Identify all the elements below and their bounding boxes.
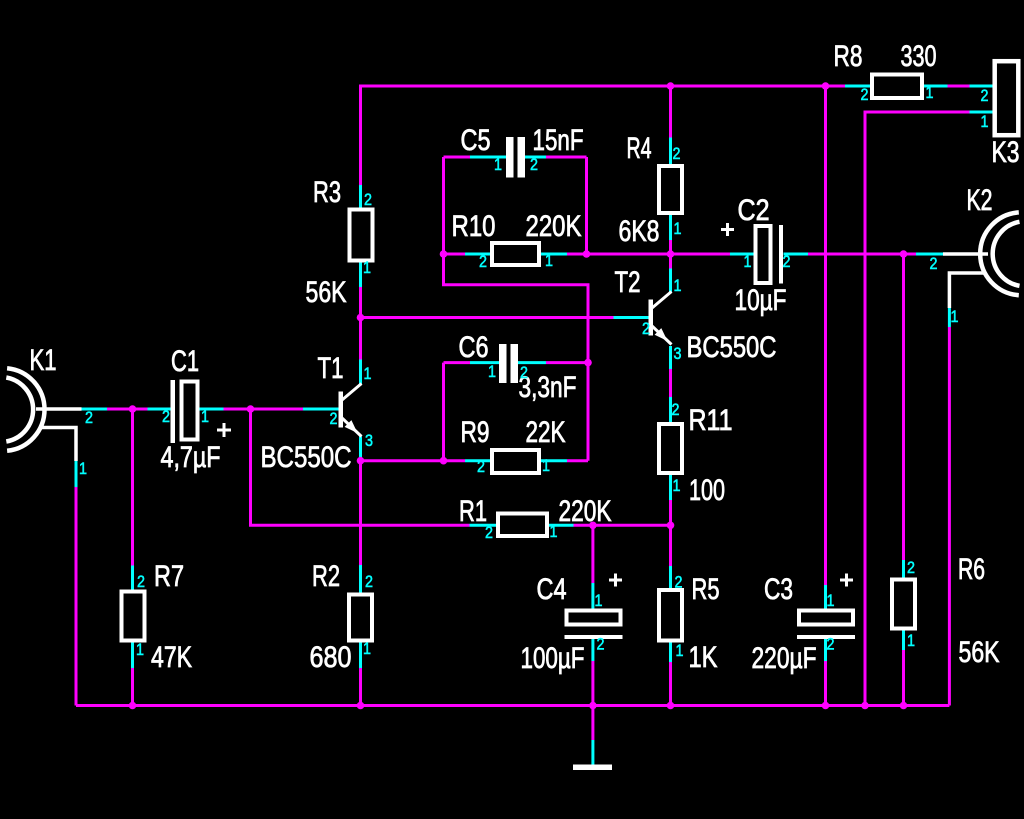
pin C4.2 stub xyxy=(591,639,594,661)
pin R9.2 stub xyxy=(465,459,490,462)
svg-text:BC550C: BC550C xyxy=(687,331,777,364)
pin C6.2 stub xyxy=(518,361,546,364)
wire R11 pin1 to output node xyxy=(669,500,672,525)
resistor R4 body xyxy=(659,166,682,213)
pin T2 emitter stub xyxy=(669,346,672,369)
resistor R2 body xyxy=(349,595,372,641)
svg-text:3: 3 xyxy=(365,431,373,450)
wire R6 pin1 to ground rail xyxy=(902,650,905,706)
wire T2 emitter to R11 pin2 xyxy=(669,369,672,397)
junction rail R2 xyxy=(357,702,365,710)
wire R9 pin1 to right loop corner xyxy=(567,459,588,462)
svg-text:C5: C5 xyxy=(461,124,491,157)
svg-text:R3: R3 xyxy=(313,176,341,209)
svg-text:6K8: 6K8 xyxy=(619,215,660,248)
resistor R1 body xyxy=(498,514,547,537)
svg-text:R2: R2 xyxy=(312,560,340,593)
svg-text:47K: 47K xyxy=(151,641,192,674)
svg-text:1: 1 xyxy=(364,364,372,383)
pin R2.1 stub xyxy=(359,643,362,669)
svg-text:1: 1 xyxy=(79,459,87,478)
svg-text:2: 2 xyxy=(930,254,938,273)
pin C3.1 stub xyxy=(824,585,827,609)
wire C6 pin1 vertical to R9 row xyxy=(442,363,445,461)
svg-text:2: 2 xyxy=(479,252,487,271)
svg-text:2: 2 xyxy=(827,635,835,654)
wire top supply rail xyxy=(361,86,846,185)
capacitor C4 plate pin1 (+) xyxy=(567,611,621,625)
svg-text:R11: R11 xyxy=(689,404,733,437)
pin K2.2 stub xyxy=(916,253,943,256)
svg-text:R4: R4 xyxy=(627,132,652,165)
pin C5.2 stub xyxy=(525,156,546,159)
pin R6.1 stub xyxy=(902,631,905,651)
wire K2 pin1 to ground rail xyxy=(948,327,951,706)
svg-text:C4: C4 xyxy=(537,573,567,606)
pin R4.1 stub xyxy=(669,215,672,240)
svg-text:1: 1 xyxy=(673,476,681,495)
pin T1 collector stub xyxy=(359,360,362,385)
svg-text:R9: R9 xyxy=(461,416,490,449)
svg-text:1: 1 xyxy=(542,456,550,475)
svg-text:2: 2 xyxy=(85,408,93,427)
junction C5.1/R10.2 node xyxy=(440,250,448,258)
junction T1 emitter node xyxy=(357,457,365,465)
capacitor C5 plate 1 xyxy=(506,137,514,178)
svg-text:56K: 56K xyxy=(959,636,1000,669)
connector K2 pin1 lead xyxy=(949,273,984,308)
pin C2.1 stub xyxy=(730,253,755,256)
pin R7.2 stub xyxy=(131,566,134,590)
svg-text:R10: R10 xyxy=(452,210,496,243)
capacitor C1 plus sign xyxy=(217,429,231,432)
wire output drop to R6 pin2 xyxy=(902,254,905,560)
pin R11.1 stub xyxy=(669,475,672,500)
junction rail R7 xyxy=(129,702,137,710)
pin T2 collector stub xyxy=(669,269,672,293)
svg-text:2: 2 xyxy=(485,523,493,542)
wire C4 bottom to ground rail xyxy=(591,661,594,706)
svg-text:2: 2 xyxy=(981,86,989,105)
svg-text:R6: R6 xyxy=(958,553,985,586)
svg-text:1K: 1K xyxy=(689,641,718,674)
svg-text:R8: R8 xyxy=(834,40,863,73)
pin C1.1 stub xyxy=(200,408,224,411)
capacitor C2 plus sign vertical xyxy=(726,223,729,236)
svg-text:15nF: 15nF xyxy=(533,124,584,157)
wire C5 top right xyxy=(546,156,587,159)
resistor R5 body xyxy=(659,590,682,641)
junction C6 left on R9 row xyxy=(440,457,448,465)
svg-text:2: 2 xyxy=(642,319,650,338)
wire R4 pin2 drop from rail xyxy=(669,86,672,138)
svg-text:BC550C: BC550C xyxy=(261,441,352,474)
junction R1/R5/R11 node xyxy=(667,522,675,530)
svg-text:1: 1 xyxy=(951,307,959,326)
svg-text:56K: 56K xyxy=(306,276,347,309)
transistor T2 collector lead xyxy=(652,292,672,309)
capacitor C3 plus sign vertical xyxy=(845,574,848,587)
svg-text:330: 330 xyxy=(901,40,937,73)
wire R5 pin1 to ground rail xyxy=(669,662,672,706)
svg-text:100: 100 xyxy=(689,474,725,507)
connector K1 inner arc xyxy=(6,378,33,442)
transistor T2 emitter lead xyxy=(652,326,672,345)
svg-text:1: 1 xyxy=(907,631,915,650)
wire C6 top right xyxy=(546,361,588,364)
svg-text:2: 2 xyxy=(597,635,605,654)
resistor R6 body xyxy=(892,580,915,629)
capacitor C1 plate pin1 (+) xyxy=(182,382,198,440)
wire T1 emitter down to R2 xyxy=(359,457,362,565)
svg-text:C1: C1 xyxy=(171,345,199,378)
capacitor C2 plus sign xyxy=(721,228,734,231)
transistor T2 base bar xyxy=(649,300,654,336)
wire output node to R5 pin2 xyxy=(669,525,672,566)
junction C3 at top rail xyxy=(822,82,830,90)
svg-text:R5: R5 xyxy=(692,573,720,606)
pin R8.1 stub xyxy=(924,85,948,88)
capacitor C2 plate pin1 (+) xyxy=(756,226,771,283)
svg-text:1: 1 xyxy=(363,639,371,658)
svg-text:1: 1 xyxy=(674,219,682,238)
capacitor C6 plate 2 xyxy=(511,344,519,383)
capacitor C3 plate pin2 xyxy=(797,635,855,639)
svg-text:1: 1 xyxy=(674,276,682,295)
svg-text:1: 1 xyxy=(981,112,989,131)
pin R4.2 stub xyxy=(669,138,672,165)
pin R1.2 stub xyxy=(470,524,497,527)
pin K1.1 stub xyxy=(75,461,78,487)
svg-text:2: 2 xyxy=(783,252,791,271)
junction C5.2/R10.1 node xyxy=(583,250,591,258)
pin T1 emitter stub xyxy=(359,437,362,458)
svg-text:K2: K2 xyxy=(967,184,993,217)
resistor R11 body xyxy=(659,424,682,473)
svg-text:680: 680 xyxy=(310,641,352,674)
svg-text:R1: R1 xyxy=(459,495,487,528)
connector K2 pin2 lead xyxy=(943,252,988,256)
svg-text:2: 2 xyxy=(672,400,680,419)
pin R6.2 stub xyxy=(902,560,905,578)
svg-text:1: 1 xyxy=(488,362,496,381)
transistor T1 emitter arrow xyxy=(345,420,358,433)
junction rail C3 xyxy=(822,702,830,710)
capacitor C4 plate pin2 xyxy=(565,635,623,639)
resistor R3 body xyxy=(350,210,373,261)
pin C5.1 stub xyxy=(470,156,506,159)
wire R4 pin1 to mid net xyxy=(669,240,672,254)
capacitor C5 plate 2 xyxy=(518,137,526,178)
wire bottom ground rail xyxy=(76,704,949,707)
svg-text:K1: K1 xyxy=(30,344,57,377)
resistor R10 body xyxy=(492,243,539,265)
pin K3.1 stub xyxy=(970,111,993,114)
wire net between R8 pin1 and K3 pin2 xyxy=(948,85,970,88)
wire K1 pin1 down to ground rail xyxy=(75,487,78,706)
wire T1 collector to T2 base xyxy=(361,316,614,319)
svg-text:2: 2 xyxy=(137,572,145,591)
svg-text:2: 2 xyxy=(520,363,528,382)
svg-text:1: 1 xyxy=(744,252,752,271)
svg-text:2: 2 xyxy=(675,573,683,592)
transistor T1 base bar xyxy=(339,392,344,428)
junction rail K3.1 xyxy=(861,702,869,710)
wire R1 feedback from T1 base node xyxy=(251,409,470,525)
resistor R9 body xyxy=(492,450,539,473)
junction rail R6 xyxy=(900,702,908,710)
pin R1.1 stub xyxy=(549,524,574,527)
junction T1 collector to T2 base xyxy=(357,314,365,322)
capacitor C1 plus sign vertical xyxy=(223,423,226,437)
svg-text:2: 2 xyxy=(162,407,170,426)
svg-text:22K: 22K xyxy=(526,416,566,449)
svg-text:1: 1 xyxy=(926,83,934,102)
pin K2.1 stub xyxy=(948,308,951,327)
wire R1 pin1 to output node xyxy=(574,524,672,527)
pin R5.2 stub xyxy=(669,566,672,588)
pin R8.2 stub xyxy=(845,85,870,88)
wire C5 top left xyxy=(444,156,471,159)
resistor R8 body xyxy=(872,75,922,99)
wire mid net R10.1 to C2.1 xyxy=(567,253,730,256)
svg-text:K3: K3 xyxy=(992,136,1020,169)
svg-text:1: 1 xyxy=(494,155,502,174)
capacitor C1 plate pin2 xyxy=(171,380,176,443)
svg-text:2: 2 xyxy=(907,558,915,577)
pin R11.2 stub xyxy=(669,397,672,422)
wire input node K1.2 to C1.2 xyxy=(107,408,148,411)
svg-text:2: 2 xyxy=(364,190,372,209)
wire ground stub below rail xyxy=(591,706,594,741)
connector K1 outer arc xyxy=(7,368,44,451)
wire R7 top drop from input node xyxy=(131,409,134,566)
svg-text:T2: T2 xyxy=(615,266,641,299)
wire K3 pin1 to ground rail xyxy=(865,112,970,706)
junction rail ground xyxy=(589,702,597,710)
wire C1 pin1 to T1 base xyxy=(224,408,304,411)
wire R7 bottom to ground rail xyxy=(131,668,134,706)
pin K3.2 stub xyxy=(970,85,993,88)
pin R9.1 stub xyxy=(541,459,567,462)
svg-text:C2: C2 xyxy=(738,194,770,227)
wire C6 top left xyxy=(444,361,471,364)
transistor T1 collector lead xyxy=(342,384,362,401)
pin R10.1 stub xyxy=(541,253,567,256)
svg-text:3: 3 xyxy=(674,344,682,363)
pin C1.2 stub xyxy=(148,408,172,411)
connector K1 pin2 lead xyxy=(36,407,82,411)
junction rail R5 xyxy=(667,702,675,710)
wire R3 pin1 to T1 collector xyxy=(359,287,362,360)
pin R10.2 stub xyxy=(465,253,490,256)
svg-text:1: 1 xyxy=(595,591,603,610)
transistor T2 emitter arrow xyxy=(655,328,668,341)
pin R5.1 stub xyxy=(669,641,672,662)
svg-text:1: 1 xyxy=(676,641,684,660)
connector K2 outer arc xyxy=(980,212,1019,295)
pin C3.2 stub xyxy=(824,639,827,661)
pin R3.2 stub xyxy=(359,185,362,208)
pin R2.2 stub xyxy=(359,565,362,593)
wire C4 top drop xyxy=(591,525,594,583)
svg-text:C3: C3 xyxy=(764,573,793,606)
capacitor C6 plate 1 xyxy=(499,344,507,383)
transistor T1 emitter lead xyxy=(342,418,362,437)
svg-text:2: 2 xyxy=(477,457,485,476)
wire C3 bottom to ground rail xyxy=(824,661,827,706)
junction C6.2 right loop xyxy=(584,359,592,367)
svg-text:4,7µF: 4,7µF xyxy=(161,441,221,474)
junction input/R1 node xyxy=(247,405,255,413)
pin C4.1 stub xyxy=(591,583,594,609)
capacitor C3 plate pin1 (+) xyxy=(799,611,853,625)
svg-text:220K: 220K xyxy=(526,210,582,243)
wire C3 drop from rail xyxy=(824,86,827,585)
junction R4 at top rail xyxy=(667,82,675,90)
svg-text:R7: R7 xyxy=(154,560,184,593)
svg-text:100µF: 100µF xyxy=(521,642,585,675)
junction input/R7 node xyxy=(129,405,137,413)
resistor R7 body xyxy=(122,592,145,641)
svg-text:T1: T1 xyxy=(318,352,344,385)
pin K1.2 stub xyxy=(82,408,108,411)
svg-text:2: 2 xyxy=(365,572,373,591)
svg-text:220K: 220K xyxy=(559,495,612,528)
svg-text:2: 2 xyxy=(861,85,869,104)
pin R7.1 stub xyxy=(131,643,134,669)
svg-text:1: 1 xyxy=(827,591,835,610)
ground symbol bar xyxy=(573,765,612,771)
svg-text:2: 2 xyxy=(330,409,338,428)
connector K3 body xyxy=(995,61,1019,135)
pin ground stub xyxy=(591,740,594,765)
connector K2 inner arc xyxy=(993,222,1020,286)
svg-text:1: 1 xyxy=(550,522,558,541)
capacitor C3 plus sign xyxy=(840,579,853,582)
svg-text:1: 1 xyxy=(545,251,553,270)
svg-text:220µF: 220µF xyxy=(752,642,817,675)
wire mid net C2.2 to K2.2 xyxy=(808,253,916,256)
wire T2 collector stub to mid net xyxy=(669,254,672,269)
pin T1 base stub xyxy=(303,408,339,411)
svg-text:C6: C6 xyxy=(459,331,489,364)
pin R3.1 stub xyxy=(359,263,362,288)
pin T2 base stub xyxy=(614,316,649,319)
connector K1 pin1 lead xyxy=(41,428,76,462)
junction output to K2 xyxy=(900,250,908,258)
junction T2 collector node xyxy=(667,250,675,258)
wire C5 pin1 vertical and link down to C6 loop xyxy=(444,157,589,461)
svg-text:1: 1 xyxy=(136,640,144,659)
capacitor C4 plus sign vertical xyxy=(614,574,617,587)
junction R1/C4 node xyxy=(589,522,597,530)
wire R2 bottom to ground rail xyxy=(359,668,362,706)
svg-text:2: 2 xyxy=(530,155,538,174)
svg-text:2: 2 xyxy=(673,144,681,163)
svg-text:10µF: 10µF xyxy=(735,284,787,317)
pin C2.2 stub xyxy=(784,253,809,256)
svg-text:1: 1 xyxy=(201,407,209,426)
wire C5 pin2 vertical to R10 pin1 xyxy=(585,157,588,254)
capacitor C4 plus sign xyxy=(609,579,622,582)
wire mid net left stub to R10.2 xyxy=(444,253,466,256)
wire R9 row from T1 emitter xyxy=(361,459,466,462)
capacitor C2 plate pin2 xyxy=(779,225,783,284)
svg-text:1: 1 xyxy=(363,258,371,277)
pin C6.1 stub xyxy=(470,361,499,364)
